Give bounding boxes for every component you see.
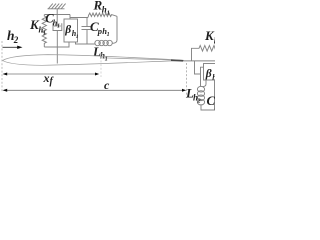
svg-text:2: 2: [196, 98, 201, 105]
svg-text:1: 1: [57, 23, 60, 29]
wire: right edge vertical: [214, 80, 216, 110]
svg-text:1: 1: [43, 30, 46, 36]
svg-text:p: p: [214, 101, 215, 111]
inductor Lh2 (vertical coil): [197, 86, 204, 105]
piezo element beta_h1: [64, 19, 78, 42]
svg-text:β: β: [64, 24, 71, 36]
wire: trailing edge attachment: [183, 60, 216, 62]
spring Kh2 (clipped at right edge): [192, 46, 217, 61]
svg-text:1: 1: [107, 32, 110, 38]
support rod wire: [56, 9, 58, 15]
dashed flap hinge line: [100, 53, 102, 77]
ground (fixed support hatching): [48, 4, 66, 9]
top mechanical bar wire: [45, 14, 71, 16]
resistor Rh1: [88, 13, 117, 18]
airfoil upper surface: [3, 55, 185, 61]
capacitor Cph1: [82, 18, 93, 45]
inductor Lh1: [95, 40, 113, 45]
svg-text:c: c: [104, 78, 110, 92]
h2 displacement arrow: [3, 46, 19, 48]
c dimension arrow: [4, 89, 185, 91]
wire: electrical top rail: [70, 17, 88, 19]
wire: bottom right: [201, 105, 216, 110]
dashed extension line at trailing edge: [186, 63, 188, 96]
bottom mechanical bracket wire: [44, 42, 69, 47]
svg-text:1: 1: [107, 10, 110, 17]
svg-text:2: 2: [13, 35, 19, 45]
piezo element beta_h2 (clipped): [204, 64, 218, 81]
svg-text:h: h: [214, 36, 215, 46]
right unit wires: [195, 61, 204, 87]
svg-text:C: C: [207, 93, 216, 108]
damper Ch1: [53, 15, 62, 64]
svg-text:x: x: [43, 71, 50, 85]
spring Kh1: [42, 15, 46, 48]
wire: electrical drop from bar: [69, 15, 71, 20]
dashed extension line at leading edge: [1, 41, 3, 92]
wire: box bottom to coil: [203, 80, 207, 87]
bottom electrical wire: [76, 42, 96, 44]
xf dimension arrow: [4, 73, 97, 75]
trailing edge (dark merge): [171, 59, 183, 62]
svg-text:1: 1: [76, 34, 79, 40]
wire: right electrical vertical: [113, 16, 117, 43]
airfoil lower surface: [3, 61, 185, 66]
flap upper line: [101, 58, 184, 61]
svg-text:β: β: [205, 68, 212, 80]
